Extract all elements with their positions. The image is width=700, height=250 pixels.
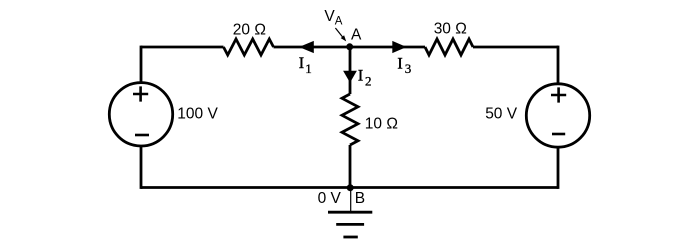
current arrow I3 xyxy=(392,41,406,53)
resistor R1 20ohm xyxy=(224,22,274,56)
label I2 xyxy=(358,68,372,89)
node B junction dot xyxy=(347,184,354,191)
node A junction dot xyxy=(346,43,353,50)
svg-text:2: 2 xyxy=(365,74,372,89)
svg-text:100 V: 100 V xyxy=(177,105,218,122)
svg-text:I: I xyxy=(358,68,363,85)
svg-text:A: A xyxy=(335,16,343,28)
svg-text:10 Ω: 10 Ω xyxy=(365,116,398,133)
wire top-middle horizontal xyxy=(274,46,426,49)
svg-text:3: 3 xyxy=(405,61,412,76)
ground symbol xyxy=(328,212,372,237)
svg-text:1: 1 xyxy=(305,61,312,76)
svg-text:B: B xyxy=(355,190,365,207)
voltage source V2 50V xyxy=(485,84,590,147)
wire middle vertical upper xyxy=(349,47,352,94)
resistor R3 10ohm xyxy=(342,94,398,145)
label VA xyxy=(324,8,342,28)
current arrow I1 xyxy=(299,41,314,53)
wire bottom horizontal xyxy=(141,186,558,189)
svg-text:V: V xyxy=(324,8,335,25)
wire top-left horizontal xyxy=(141,46,224,49)
svg-text:I: I xyxy=(299,55,304,72)
voltage source V1 100V xyxy=(109,83,218,146)
svg-text:20 Ω: 20 Ω xyxy=(233,22,266,39)
wire left vertical upper xyxy=(140,46,143,83)
current arrow I2 xyxy=(343,71,357,83)
wire left vertical lower xyxy=(140,146,143,189)
svg-text:A: A xyxy=(351,27,362,44)
svg-text:0 V: 0 V xyxy=(318,190,342,207)
label I1 xyxy=(299,55,312,76)
wire middle vertical lower xyxy=(349,145,352,188)
svg-text:I: I xyxy=(397,56,402,73)
wire right vertical upper xyxy=(557,46,560,85)
svg-text:50 V: 50 V xyxy=(485,105,518,122)
wire right vertical lower xyxy=(557,148,560,189)
svg-text:30 Ω: 30 Ω xyxy=(434,20,467,37)
label I3 xyxy=(397,56,411,76)
wire top-right horizontal xyxy=(473,46,558,49)
resistor R2 30ohm xyxy=(425,20,473,55)
ground stem wire xyxy=(350,189,352,212)
VA leader arrow xyxy=(335,28,346,41)
